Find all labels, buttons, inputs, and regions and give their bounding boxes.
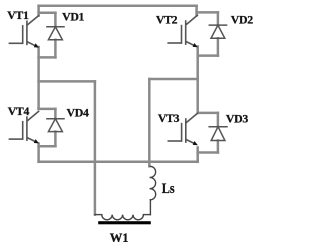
wire left emitter junction horizontal [39,56,56,59]
diode VD4 [47,119,64,132]
svg-text:VD3: VD3 [226,111,248,125]
wire VD3 bottom lead [217,141,220,153]
wire VT4 emitter junction horizontal [39,145,56,148]
wire VT3 emitter to rail [196,148,199,162]
wire right output vertical [148,79,151,166]
wire VT4 emitter to rail [37,144,40,162]
wire left step vertical [37,6,40,16]
wire VD1 bottom lead [54,40,57,58]
wire bottom rail [39,161,198,164]
svg-text:VD1: VD1 [62,10,84,24]
wire Ls bottom lead [149,200,151,215]
wire right corner horizontal [197,11,218,14]
inductor Ls coil [150,166,156,214]
core bar of W1 [98,221,151,224]
wire left corner horizontal [39,11,56,14]
wire left mid tee horizontal [39,80,95,83]
transistor VT1 [9,16,38,47]
wire VT3 emitter junction horizontal [198,151,218,154]
transistor VT4 [9,111,38,142]
wire VD2 top lead [217,12,220,25]
wire left leg vertical [37,47,40,109]
diode VD2 [209,25,226,38]
wire right mid tee horizontal [149,78,197,81]
svg-text:VT3: VT3 [158,111,180,125]
wire VD1 top lead [54,13,57,27]
wire VD4 bottom lead [54,132,57,147]
svg-text:VT2: VT2 [156,12,178,26]
transistor VT2 [168,15,197,46]
wire left output vertical [94,81,97,214]
wire right emitter junction horizontal [198,54,218,57]
svg-text:VD2: VD2 [231,13,253,27]
svg-text:W1: W1 [110,231,129,242]
winding W1 coil [95,215,150,220]
wire W1 left stub [95,214,102,216]
svg-text:Ls: Ls [162,180,175,196]
svg-text:VT1: VT1 [7,8,29,22]
diode VD1 [47,27,64,40]
wire VD2 bottom lead [217,38,220,55]
svg-text:VT4: VT4 [8,104,30,118]
wire right leg vertical [196,47,199,113]
wire VD4 top lead [54,109,57,119]
wire VD3 top lead [217,113,220,127]
wire VT3 corner horizontal [198,112,218,115]
diode VD3 [209,127,227,141]
wire top rail [39,5,197,8]
wire right step vertical [195,6,198,16]
wire VT4 corner horizontal [39,108,56,111]
wire W1 right stub [143,214,150,216]
transistor VT3 [168,113,197,144]
svg-text:VD4: VD4 [67,106,89,120]
